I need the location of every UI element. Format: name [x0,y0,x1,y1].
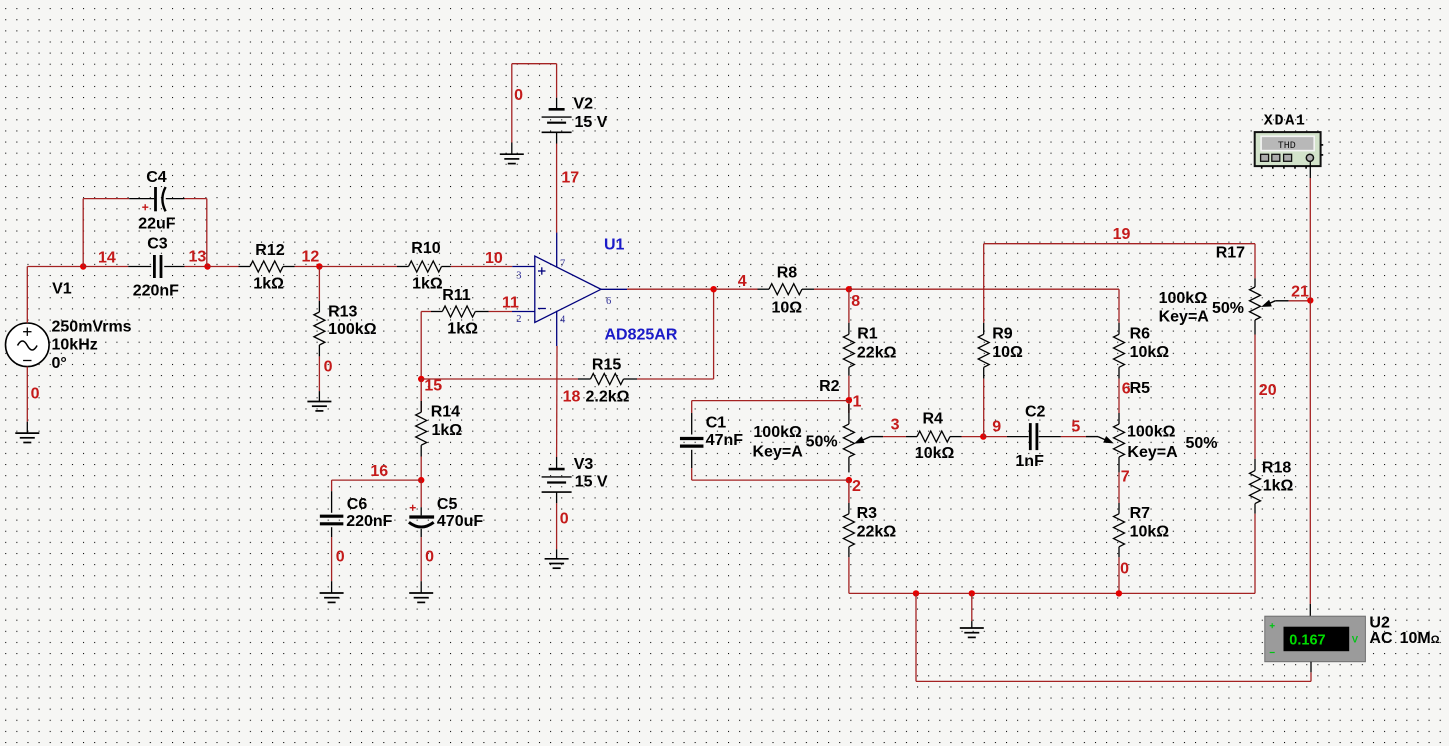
value R7 [1130,523,1170,540]
node 9 junction [980,433,986,439]
net 6 label [1122,381,1131,398]
node 15 junction [418,376,424,382]
resistor R10 [397,261,451,272]
resistor R8 [758,284,815,295]
svg-text:12: 12 [302,249,320,266]
label C6 [347,496,368,513]
wire R5 to R7 [1118,472,1120,503]
label R8 [777,265,798,282]
svg-text:C1: C1 [706,414,727,431]
svg-text:10kΩ: 10kΩ [915,445,955,462]
svg-text:17: 17 [561,170,579,187]
wire node8 to R6 column [849,289,1119,323]
value R12 [253,276,284,293]
svg-text:C6: C6 [347,496,368,513]
svg-text:3: 3 [516,270,521,281]
label R17 [1216,244,1245,261]
XDA1 terminal ticks [1262,145,1324,169]
value R2 [753,424,838,461]
svg-text:22uF: 22uF [138,215,176,232]
svg-text:2: 2 [516,314,521,325]
wire R13 to ground [318,356,320,391]
svg-text:0: 0 [324,358,333,375]
wire V1 bottom [26,367,28,422]
svg-text:16: 16 [370,463,388,480]
svg-text:C4: C4 [146,169,167,186]
wire node15 riser to R11 row [421,312,431,380]
value U1 AD825AR [605,327,678,344]
op-amp input stub pin2 [512,311,535,313]
C5 plus sign [410,505,416,511]
XDA1 output terminal [1306,154,1313,161]
wire node16 to C6 [332,480,422,491]
svg-text:R9: R9 [992,326,1013,343]
net 8 label [851,293,860,310]
svg-text:15 V: 15 V [575,114,608,131]
wire node12 to R10 [319,266,397,268]
svg-text:10kΩ: 10kΩ [1130,523,1170,540]
wire V2 top loop [512,64,557,143]
svg-text:10Ω: 10Ω [992,344,1023,361]
net 14 label [98,249,116,266]
svg-text:220nF: 220nF [133,283,179,300]
capacitor C6 [320,491,344,537]
net 12 label [302,249,320,266]
wire node8 to R1 [848,289,850,323]
svg-text:22kΩ: 22kΩ [857,344,897,361]
resistor R1 [843,323,854,376]
svg-text:C2: C2 [1025,404,1046,421]
svg-text:2.2kΩ: 2.2kΩ [586,389,630,406]
svg-text:V3: V3 [574,456,594,473]
resistor R15 [578,374,637,385]
op-amp power stub pin4 [556,311,558,346]
junction bus-U2loop [913,590,919,596]
label R6 [1130,326,1151,343]
wire R17 wiper to node 21 [1289,300,1311,302]
wire node9 to C2 [983,436,1007,438]
label V1 [52,281,72,298]
capacitor C1 [680,413,704,468]
net 0 label at R13 [324,358,333,375]
net 0 label at R7 [1120,561,1129,578]
value R18 [1263,478,1294,495]
svg-text:Key=A: Key=A [753,444,804,461]
wire R17 to R18 [1254,335,1256,459]
node 12 junction [316,263,322,269]
label C3 [147,236,168,253]
wire V2 to op-amp pin7 [556,144,558,233]
C4 plus sign [142,204,148,210]
svg-text:Key=A: Key=A [1159,309,1210,326]
svg-text:1kΩ: 1kΩ [253,276,284,293]
svg-text:AD825AR: AD825AR [605,327,678,344]
value V2 [575,114,608,131]
label C2 [1025,404,1046,421]
battery V2 [542,98,572,144]
svg-text:XDA1: XDA1 [1264,113,1307,130]
junction bus-R7 [1116,590,1122,596]
net 11 label [502,294,519,311]
svg-text:8: 8 [851,293,860,310]
svg-text:1kΩ: 1kΩ [447,321,478,338]
label R5 [1130,380,1151,397]
node 13 junction [204,263,210,269]
multimeter U2 body [1265,616,1366,662]
capacitor C2 [1007,423,1061,450]
net 17 label [561,170,579,187]
op-amp output stub pin6 [601,288,627,290]
voltage source V1 [6,323,50,367]
svg-text:21: 21 [1291,283,1309,300]
distortion analyzer XDA1 body [1255,132,1321,166]
svg-text:R1: R1 [857,326,878,343]
svg-text:15 V: 15 V [575,474,608,491]
node 8 junction [846,286,852,292]
node 14 junction [80,263,86,269]
svg-text:100kΩ: 100kΩ [1127,424,1176,441]
label V2 [573,96,593,113]
label XDA1 [1264,113,1307,130]
ground at V1 [15,422,39,443]
svg-text:R15: R15 [592,357,621,374]
op-amp input stub pin3 [512,266,535,268]
wire V1 to node 14 [27,266,83,268]
wire bus to U2 minus loop [916,593,1311,681]
wire C4 to node 13 [185,199,207,267]
svg-text:R2: R2 [819,378,840,395]
svg-text:0°: 0° [52,355,67,372]
net 1 label [853,394,862,411]
value R4 [915,445,955,462]
node 1 junction [846,397,852,403]
svg-text:11: 11 [502,294,519,311]
svg-text:R5: R5 [1130,380,1151,397]
svg-text:10: 10 [485,250,503,267]
svg-text:50%: 50% [1212,300,1244,317]
svg-text:220nF: 220nF [346,513,392,530]
resistor R18 [1250,459,1261,514]
svg-text:470uF: 470uF [437,513,483,530]
svg-text:0: 0 [336,549,345,566]
pin number 6 [606,296,611,307]
wire node4 to R8 [714,288,758,290]
svg-text:13: 13 [189,249,207,266]
pin number 7 [560,259,565,270]
svg-text:R13: R13 [328,304,357,321]
node 2 junction [846,477,852,483]
ground at V2 [500,143,524,164]
resistor R7 [1114,503,1125,557]
net 19 label [1113,226,1131,243]
svg-text:10kHz: 10kHz [52,337,98,354]
svg-text:R10: R10 [411,240,440,257]
label R13 [328,304,357,321]
net 3 label [891,417,900,434]
wire 19 corner to R9 [983,244,985,323]
svg-text:0: 0 [514,87,523,104]
resistor R13 [314,301,325,357]
svg-text:20: 20 [1259,382,1277,399]
label R14 [431,404,460,421]
svg-text:7: 7 [1121,469,1130,486]
net 0 label at V3 [560,511,569,528]
wire XDA1 to node 21 [1309,162,1311,300]
wire R15 to node 4 [637,289,714,379]
wire node15 to R15 [421,378,578,380]
value C1 [706,432,744,449]
svg-text:AC: AC [1369,630,1393,647]
svg-text:R18: R18 [1262,460,1291,477]
svg-text:V: V [1352,635,1359,646]
svg-text:1kΩ: 1kΩ [1263,478,1294,495]
ground at V3 [545,549,569,568]
svg-text:1kΩ: 1kΩ [432,422,463,439]
label R12 [255,242,284,259]
net 15 label [424,378,442,395]
wire node1 to C1 top [692,401,849,413]
resistor R14 [416,379,427,457]
wire op-amp out to node 4 [627,288,714,290]
svg-text:4: 4 [738,273,747,290]
net 9 label [992,418,1001,435]
svg-text:0: 0 [1120,561,1129,578]
svg-text:1nF: 1nF [1015,453,1044,470]
label R10 [411,240,440,257]
label R3 [857,505,878,522]
net 20 label [1259,382,1277,399]
potentiometer R17 [1250,278,1261,334]
svg-text:7: 7 [560,259,565,270]
svg-text:50%: 50% [1186,435,1218,452]
value C2 [1015,453,1044,470]
wire R8 to node 8 [814,288,849,290]
label R2 [819,378,840,395]
resistor R6 [1114,323,1125,379]
svg-text:18: 18 [563,389,581,406]
pin number 4 [560,314,566,325]
svg-text:100kΩ: 100kΩ [753,424,802,441]
wire C6 to ground [331,537,333,581]
svg-text:10kΩ: 10kΩ [1130,344,1170,361]
value R3 [857,523,897,540]
wire R2 wiper to R4 [883,436,906,438]
svg-text:15: 15 [424,378,442,395]
value C3 [133,283,179,300]
value R11 [447,321,478,338]
svg-text:V2: V2 [573,96,593,113]
svg-text:R8: R8 [777,265,798,282]
wire R1 to node 1 [848,376,850,400]
svg-text:R11: R11 [442,287,471,304]
resistor R11 [431,306,489,317]
svg-text:100kΩ: 100kΩ [328,321,377,338]
svg-text:C5: C5 [437,496,458,513]
label U1 [604,236,625,253]
label R9 [992,326,1013,343]
ground at R13 [307,391,331,411]
svg-text:0: 0 [31,386,40,403]
wire ground bus [849,592,1255,594]
wire node14 up to C4 row [83,199,129,267]
net 18 label [563,389,581,406]
value V3 [575,474,608,491]
wire R18 to bus corner [1254,514,1256,594]
net 0 label at C5 [425,549,434,566]
value R8 [772,299,803,316]
svg-text:R17: R17 [1216,244,1245,261]
node 21 junction [1307,297,1313,303]
node 16 junction [418,477,424,483]
svg-text:22kΩ: 22kΩ [857,523,897,540]
resistor R4 [906,431,962,442]
svg-text:10Ω: 10Ω [772,299,803,316]
svg-text:R7: R7 [1130,505,1151,522]
net 2 label [852,478,861,495]
wire R3 to bus [848,557,850,593]
svg-text:14: 14 [98,249,116,266]
wire R7 to bus [1118,557,1120,593]
wire R14 to node16 [420,457,422,481]
label C5 [437,496,458,513]
resistor R9 [978,323,989,379]
value R15 [586,389,630,406]
wire node 21 to U2 [1309,300,1311,617]
capacitor C4 (electrolytic) [129,187,184,211]
svg-text:C3: C3 [147,236,168,253]
svg-text:0: 0 [425,549,434,566]
svg-text:R14: R14 [431,404,460,421]
wire C1 bottom to node2 [692,468,849,480]
label C1 [706,414,727,431]
value C5 [437,513,483,530]
label C4 [146,169,167,186]
svg-text:R3: R3 [857,505,878,522]
R5 wiper arrow [1086,436,1114,443]
svg-text:100kΩ: 100kΩ [1159,290,1208,307]
battery V3 [542,457,572,503]
wire node14 to C3 [83,266,128,268]
wire R11 to op-amp inv [489,311,512,313]
wire node13 to R12 [208,266,239,268]
label R18 [1262,460,1291,477]
wire R4 to node 9 [962,436,984,438]
label R4 [923,411,944,428]
wire C5 to ground [420,537,422,581]
ground at C5 [409,581,433,602]
potentiometer R2 [843,400,854,472]
wire bus to ground [971,593,973,621]
value R13 [328,321,377,338]
wire C2 to R5 wiper [1061,436,1086,438]
op-amp power stub pin7 [556,233,558,268]
net 0 label at V2 [514,87,523,104]
R17 wiper arrow [1261,300,1289,307]
value R14 [432,422,463,439]
net 4 label [738,273,747,290]
net 0 label at C6 [336,549,345,566]
value R17 [1159,290,1244,326]
value U2 [1369,630,1439,647]
svg-text:3: 3 [891,417,900,434]
value R10 [412,276,443,293]
wire op-amp pin4 to V3 [556,346,558,457]
op-amp U1 triangle [535,256,601,323]
resistor R3 [843,480,854,557]
value C4 [138,215,176,232]
svg-text:2: 2 [852,478,861,495]
svg-text:V1: V1 [52,281,72,298]
XDA1 buttons [1261,154,1292,161]
net 7 label [1121,469,1130,486]
potentiometer R5 [1114,413,1125,472]
wire net 19 [984,244,1255,279]
wire R9 to node 9 [983,379,985,437]
wire node16 to C5 [420,480,422,507]
svg-text:U2: U2 [1369,614,1390,631]
label V3 [574,456,594,473]
value R6 [1130,344,1170,361]
ground at C6 [320,581,344,602]
capacitor C3 [128,255,184,278]
svg-text:1: 1 [853,394,862,411]
wire V3 to ground [556,503,558,549]
svg-text:47nF: 47nF [706,432,744,449]
svg-text:0.167: 0.167 [1289,632,1325,648]
label R11 [442,287,471,304]
wire node12 to R13 [318,267,320,301]
net 13 label [189,249,207,266]
net 0 label at V1 [31,386,40,403]
label R1 [857,326,878,343]
svg-text:R6: R6 [1130,326,1151,343]
ground at bus [960,621,984,637]
wire R6 to R5 [1118,379,1120,413]
pin number 2 [516,314,521,325]
label R15 [592,357,621,374]
svg-text:0: 0 [560,511,569,528]
label R7 [1130,505,1151,522]
net 16 label [370,463,388,480]
svg-text:5: 5 [1071,418,1080,435]
wire R10 to op-amp noninv [451,266,513,268]
svg-text:1kΩ: 1kΩ [412,276,443,293]
svg-text:4: 4 [560,314,566,325]
svg-text:9: 9 [992,418,1001,435]
pin number 3 [516,270,521,281]
svg-text:250mVrms: 250mVrms [52,318,132,335]
value R1 [857,344,897,361]
value V1 [52,318,132,372]
net 21 label [1291,283,1309,300]
svg-text:R4: R4 [923,411,944,428]
label U2 [1369,614,1390,631]
svg-text:19: 19 [1113,226,1131,243]
net 10 label [485,250,503,267]
value R5 [1127,424,1218,461]
value R9 [992,344,1023,361]
value C6 [346,513,392,530]
svg-text:R12: R12 [255,242,284,259]
svg-text:Key=A: Key=A [1127,444,1178,461]
wire R12 to node 12 [295,266,320,268]
svg-text:U1: U1 [604,236,625,253]
svg-text:50%: 50% [806,434,838,451]
node 4 junction [710,286,716,292]
svg-text:6: 6 [606,296,611,307]
resistor R12 [239,261,295,272]
capacitor C5 [409,507,434,537]
